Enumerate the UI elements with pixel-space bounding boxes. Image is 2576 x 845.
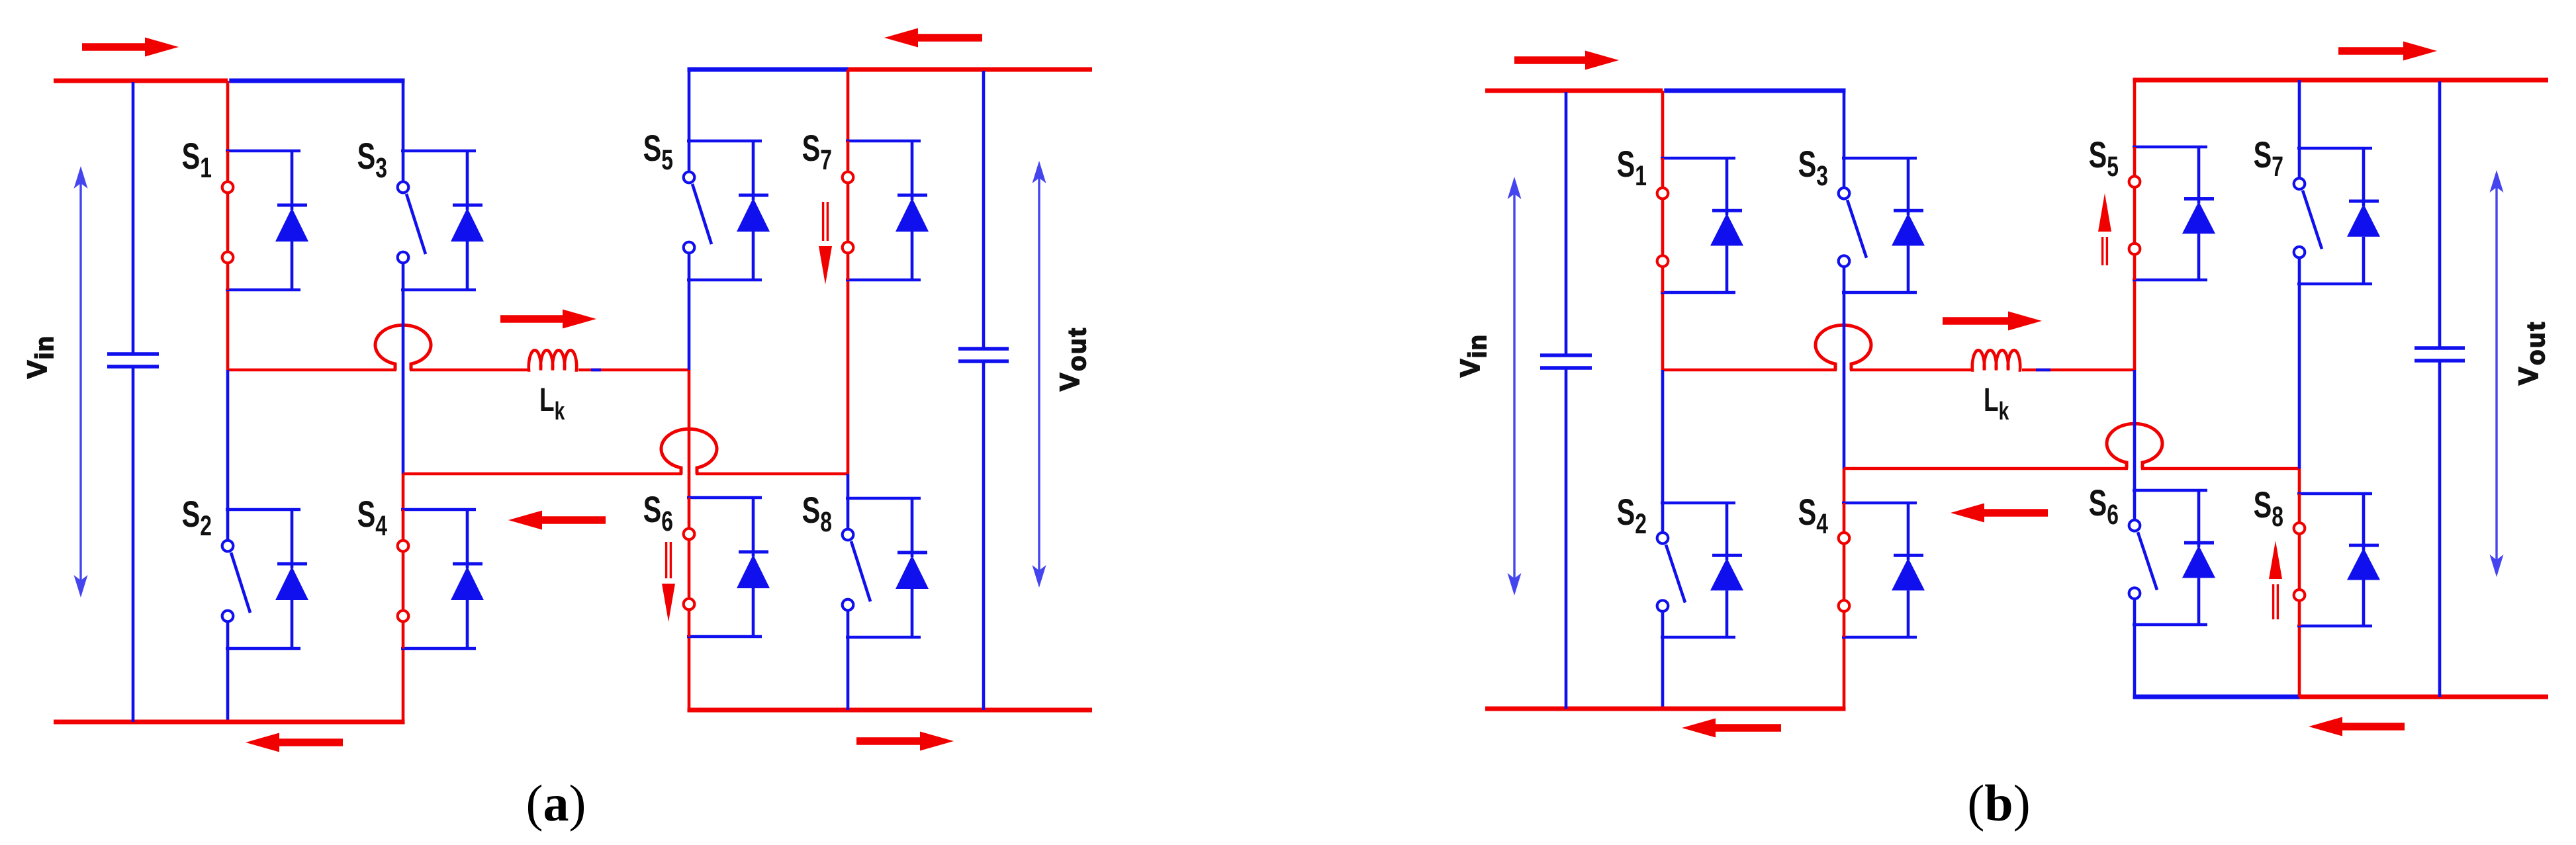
wire S3 drop (blue) <box>402 82 405 151</box>
output capacitor (a) <box>958 71 1009 710</box>
current arrow bottom-left (a) pointing left <box>246 733 343 752</box>
switch S3 <box>398 151 476 290</box>
wire bottom rail right (red) (b) <box>2299 695 2548 699</box>
wire top rail left (red, Vin+ to S1) <box>54 79 228 83</box>
current arrow through S5 (up) <box>2098 193 2111 265</box>
crossover hump over S3/S4 leg (b) <box>1816 325 1871 370</box>
switch S2 <box>222 510 300 648</box>
switch S6 <box>684 498 762 637</box>
anti-parallel diode of S2 <box>275 510 308 648</box>
switch S1 <box>222 151 300 290</box>
wire S2 to bottom rail (blue) <box>226 648 230 722</box>
wire node B to S4 (red) <box>402 474 405 510</box>
wire top rail right (red) (b) <box>2133 78 2549 83</box>
current arrow top-left (a) pointing right <box>82 38 179 57</box>
anti-parallel diode of S5 <box>737 141 770 280</box>
switch S4 <box>398 510 476 648</box>
switch S1 <box>1657 158 1735 292</box>
wire upper middle right of Lk (red) (b) <box>2022 369 2135 372</box>
crossover hump over S5/S6 leg <box>661 429 717 474</box>
crossover hump over S3/S4 leg <box>375 325 431 370</box>
wire top rail left (blue, to S3) <box>229 79 404 83</box>
wire lower middle (red) with crossover hump (b) <box>1844 467 2128 470</box>
current arrow through S7 (down) <box>819 202 832 285</box>
wire S2 to bottom rail (blue) (b) <box>1661 637 1665 709</box>
anti-parallel diode of S5 <box>2182 147 2215 280</box>
wire upper middle right of Lk (red) <box>578 369 689 372</box>
crossover hump over S5/S6 leg (b) <box>2107 423 2162 468</box>
anti-parallel diode of S6 <box>2182 490 2215 625</box>
wire S7 to node D (red) <box>847 280 850 474</box>
current arrow top-left (b) pointing right <box>1514 51 1619 70</box>
wire S7 drop (blue) (b) <box>2298 80 2301 148</box>
wire S1 drop (red) (b) <box>1661 91 1665 158</box>
wire S8 to bottom rail (blue) <box>847 637 850 710</box>
switch S6 <box>2129 490 2207 625</box>
wire S3 through crossover to node B (blue) <box>402 290 405 474</box>
wire S3 through crossover to node B (blue) (b) <box>1843 292 1846 468</box>
switch S8 <box>2294 494 2372 626</box>
wire bottom rail left (red) <box>54 720 405 725</box>
wire S3 drop (blue) (b) <box>1843 92 1846 158</box>
current arrow upper middle (b) pointing right <box>1943 312 2042 331</box>
anti-parallel diode of S8 <box>896 498 929 637</box>
anti-parallel diode of S7 <box>896 141 929 280</box>
current arrow through S6 (down) <box>662 542 675 622</box>
anti-parallel diode of S8 <box>2347 494 2380 626</box>
wire upper middle (red) with crossover hump (b) <box>1663 369 1837 372</box>
inductor Lk (a) <box>528 350 578 370</box>
blue wire dash after Lk (b) <box>2036 369 2050 372</box>
wire lower middle (red) with crossover hump <box>403 472 682 476</box>
wire S4 leg (red) (b) <box>1843 637 1846 707</box>
wire node C to S6 (blue) (b) <box>2133 370 2137 490</box>
wire S5 to node C (red) (b) <box>2133 280 2137 370</box>
wire node A to S2 (blue) (b) <box>1661 370 1665 503</box>
wire node D to S8 (blue) <box>847 474 850 498</box>
blue wire dash after Lk <box>591 369 601 372</box>
wire bottom rail blue segment (b) <box>2133 695 2300 699</box>
current arrow lower middle (a) pointing left <box>508 511 606 530</box>
input capacitor (b) <box>1540 92 1592 709</box>
wire S7 drop (red) <box>847 69 850 141</box>
inductor Lk (b) <box>1971 350 2021 370</box>
anti-parallel diode of S7 <box>2347 148 2380 284</box>
wire S8 leg (red) (b) <box>2298 626 2301 697</box>
anti-parallel diode of S1 <box>275 151 308 290</box>
wire S7 to node D (blue) (b) <box>2298 284 2301 468</box>
input capacitor (a) <box>107 82 159 722</box>
switch S7 <box>2294 148 2372 284</box>
switch S7 <box>843 141 921 280</box>
wire S5 drop (red) (b) <box>2133 81 2137 147</box>
anti-parallel diode of S2 <box>1710 503 1743 637</box>
svg-text:(b): (b) <box>1967 774 2030 832</box>
current arrow through S8 (up) <box>2269 541 2282 619</box>
Vin measurement arrow (b) <box>1508 177 1522 596</box>
current arrow lower middle (b) pointing left <box>1951 504 2048 523</box>
wire S1 drop (red) <box>226 81 230 151</box>
current arrow bottom-left (b) pointing left <box>1682 719 1781 738</box>
wire S5 to node C (blue) <box>688 280 691 370</box>
current arrow bottom-right (b) pointing left <box>2309 717 2405 736</box>
wire top rail left (blue, to S3) (b) <box>1664 89 1845 93</box>
wire node C to S6 (red) <box>688 370 691 498</box>
switch S8 <box>843 498 921 637</box>
anti-parallel diode of S4 <box>451 510 484 648</box>
wire bottom rail right (red) <box>688 708 1093 713</box>
switch S5 <box>684 141 762 280</box>
current arrow bottom-right (a) pointing right <box>856 732 954 751</box>
current arrow top-right (a) pointing left <box>884 28 982 48</box>
wire node B to S4 (red) (b) <box>1843 468 1846 503</box>
anti-parallel diode of S3 <box>1892 158 1925 292</box>
anti-parallel diode of S6 <box>737 498 770 637</box>
wire S6 leg (blue) (b) <box>2133 625 2137 695</box>
wire node A to S2 (blue) <box>226 370 230 510</box>
wire top rail right (blue, S5 side) <box>688 67 849 72</box>
wire S1 to node A (red) <box>226 290 230 370</box>
wire S1 to node A (red) (b) <box>1661 292 1665 370</box>
anti-parallel diode of S4 <box>1892 503 1925 637</box>
current arrow upper middle (a) pointing right <box>500 310 596 329</box>
current arrow top-right (b) pointing right <box>2338 42 2437 61</box>
wire S4 leg (red) <box>402 648 405 721</box>
svg-text:(a): (a) <box>526 774 586 832</box>
output capacitor (b) <box>2415 81 2465 697</box>
wire upper middle (red) with crossover hump <box>228 369 396 372</box>
wire S6 leg (red) <box>688 637 691 709</box>
switch S5 <box>2129 147 2207 280</box>
wire top rail right (red, to Vout+) <box>848 67 1092 72</box>
Vout measurement arrow (a) <box>1033 161 1046 588</box>
anti-parallel diode of S1 <box>1710 158 1743 292</box>
wire top rail left (red) (b) <box>1485 89 1663 93</box>
wire bottom rail left (red) (b) <box>1485 707 1846 711</box>
wire S5 drop (blue) <box>688 71 691 141</box>
switch S4 <box>1839 503 1917 637</box>
Vin measurement arrow (a) <box>74 166 88 598</box>
Vout measurement arrow (b) <box>2490 170 2504 577</box>
anti-parallel diode of S3 <box>451 151 484 290</box>
switch S2 <box>1657 503 1735 637</box>
switch S3 <box>1839 158 1917 292</box>
